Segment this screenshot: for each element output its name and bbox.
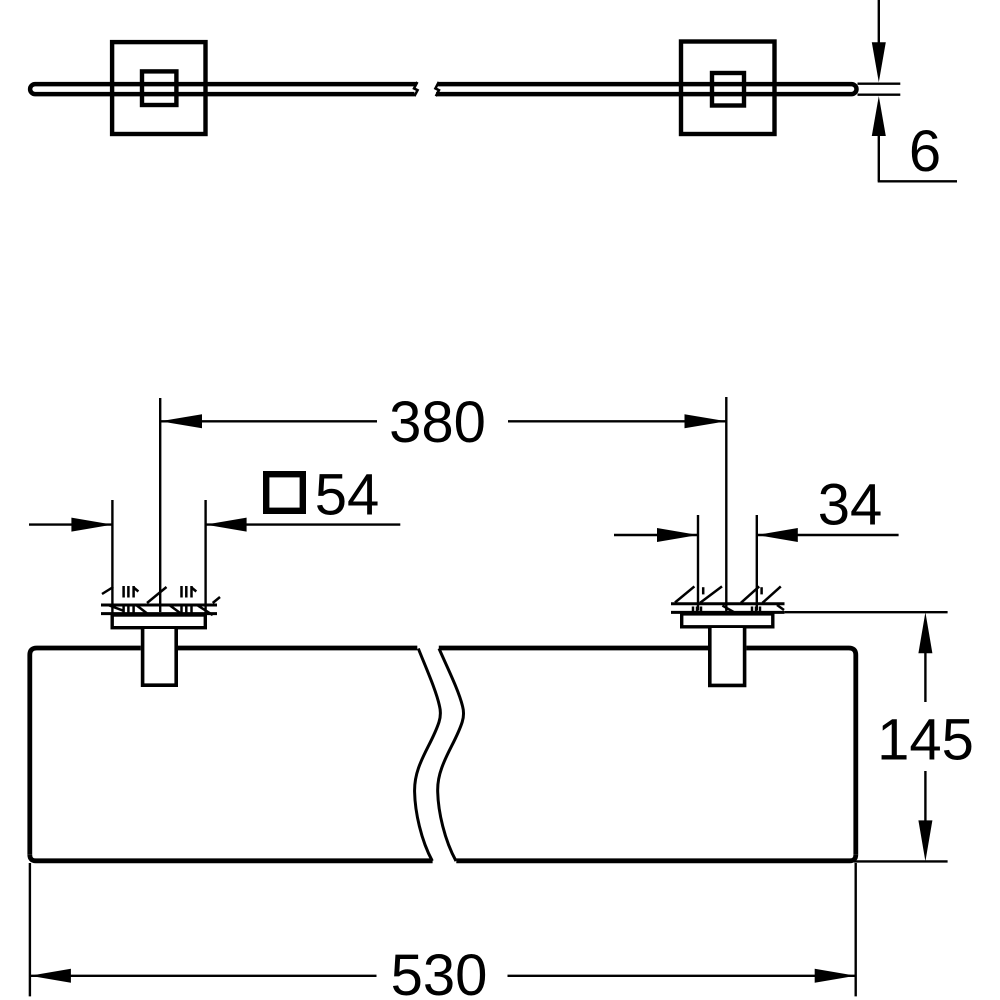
dimension 34: right arrowhead (pointing left) xyxy=(757,528,798,542)
dimension 380: dimension line right segment xyxy=(508,420,726,422)
dimension 530: right arrowhead xyxy=(815,969,856,983)
dimension 34: right tail line xyxy=(757,534,899,536)
dimension 54: left arrowhead (pointing right) xyxy=(71,518,112,532)
break line right S-curve xyxy=(438,649,464,862)
dimension 380: right extension line xyxy=(725,397,727,611)
shelf outline: top edge between left stem and break xyxy=(178,646,417,651)
dimension 54: left tail line xyxy=(29,523,112,525)
dimension 6: upper extension line xyxy=(858,82,901,84)
dimension 34: left arrowhead (pointing right) xyxy=(657,528,698,542)
dimension 6: upper arrowhead (pointing down) xyxy=(872,42,886,82)
dimension 380: dimension line left segment xyxy=(160,420,377,422)
dimension 380: right arrowhead xyxy=(685,414,727,428)
left bracket: wall line upper xyxy=(101,604,217,607)
dimension 530: dimension line right segment xyxy=(508,975,856,977)
dimension 34: right extension line xyxy=(756,515,758,611)
right wall holder outer square plate xyxy=(681,42,775,135)
dimension 145: top extension line xyxy=(785,611,948,613)
glass pane right segment (edge view, break cut left end, rounded right end) xyxy=(436,84,856,94)
dimension 6: leader line to label xyxy=(878,180,957,182)
dimension 145: upper dimension line segment xyxy=(924,652,926,702)
dimension 380: left arrowhead xyxy=(160,414,202,428)
dimension 6: lower dimension line segment xyxy=(878,135,880,181)
svg-text:34: 34 xyxy=(818,473,883,538)
svg-text:380: 380 xyxy=(389,390,486,455)
dimension 530: left arrowhead xyxy=(30,969,71,983)
glass pane right segment break cut (thin zigzag) xyxy=(435,82,439,96)
glass pane left segment (edge view, rounded left end, break cut right end) xyxy=(30,84,416,94)
right bracket: wall line upper xyxy=(671,602,785,605)
break line left S-curve xyxy=(415,649,441,862)
dimension 54: right extension line xyxy=(204,500,206,617)
dimension 54: left extension line xyxy=(111,500,113,617)
shelf outline: top edge from right stem, top-right corner, right edge xyxy=(746,648,855,855)
left bracket: wall line lower xyxy=(101,612,217,615)
dimension 530: dimension line left segment xyxy=(30,975,377,977)
shelf outline: left edge, top-left corner, top edge to left stem xyxy=(30,648,141,855)
dimension 530: left extension line xyxy=(29,863,31,996)
left bracket: hatching xyxy=(102,586,220,619)
right bracket: mounting plate xyxy=(682,614,773,627)
dimension 54: right arrowhead (pointing left) xyxy=(206,518,247,532)
right bracket: wall line lower xyxy=(671,611,785,614)
dimension 6: lower extension line xyxy=(858,93,901,95)
shelf outline: top edge between break and right stem xyxy=(439,646,708,651)
right bracket: stem xyxy=(710,628,745,685)
svg-text:145: 145 xyxy=(877,708,974,773)
dimension 380: left extension line xyxy=(159,398,161,612)
left wall holder outer square plate xyxy=(112,42,205,134)
dimension 6: lower arrowhead (pointing up) xyxy=(872,96,886,136)
dimension 145: bottom arrowhead (pointing down) xyxy=(918,820,932,861)
dimension 6: upper dimension line segment xyxy=(878,0,880,43)
left bracket: stem xyxy=(143,629,177,685)
dimension 34: left tail line xyxy=(614,534,698,536)
left wall holder inner boss xyxy=(142,71,176,105)
dimension 145: lower dimension line segment xyxy=(924,771,926,821)
svg-text:6: 6 xyxy=(909,119,941,184)
glass pane left segment break cut (thin zigzag) xyxy=(414,82,418,96)
shelf outline: bottom-right corner and bottom edge to break xyxy=(456,855,856,861)
svg-text:54: 54 xyxy=(315,463,380,528)
dimension 530: right extension line xyxy=(855,863,857,996)
right bracket: hatching xyxy=(675,586,784,612)
svg-text:530: 530 xyxy=(391,943,488,1000)
dimension 54: square symbol xyxy=(266,474,303,511)
right wall holder inner boss xyxy=(712,73,744,106)
shelf outline: bottom edge from break, bottom-left corner xyxy=(30,855,433,861)
dimension 145: bottom extension line xyxy=(854,860,948,862)
dimension 34: left extension line xyxy=(697,515,699,611)
left bracket: mounting plate xyxy=(112,615,205,628)
dimension 54: right tail line xyxy=(206,523,401,525)
dimension 145: top arrowhead (pointing up) xyxy=(918,612,932,653)
